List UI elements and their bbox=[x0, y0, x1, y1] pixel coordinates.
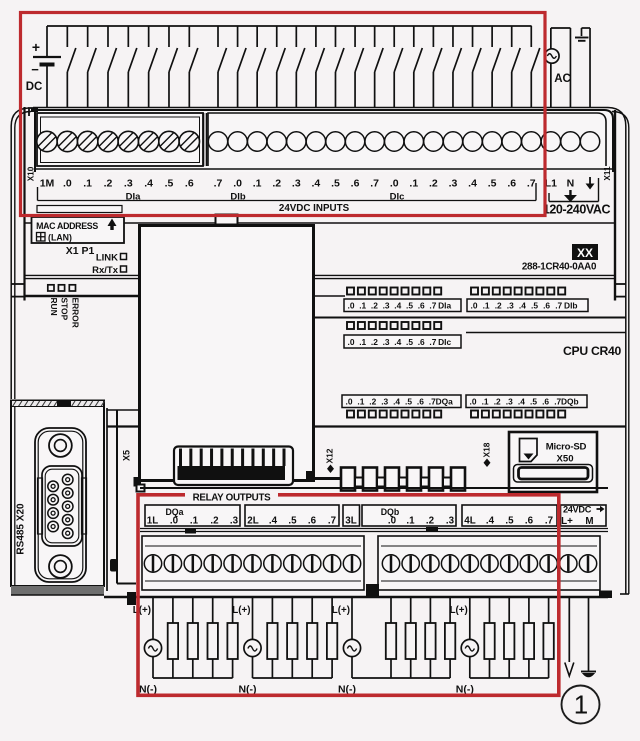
svg-text:.2: .2 bbox=[210, 516, 219, 527]
svg-text:24VDC: 24VDC bbox=[563, 505, 592, 515]
svg-text:288-1CR40-0AA0: 288-1CR40-0AA0 bbox=[522, 262, 597, 273]
svg-text:.4: .4 bbox=[486, 516, 495, 527]
svg-text:.2: .2 bbox=[426, 516, 435, 527]
svg-text:.6: .6 bbox=[308, 516, 317, 527]
svg-text:.5: .5 bbox=[406, 301, 413, 311]
svg-text:.5: .5 bbox=[165, 178, 174, 190]
svg-text:L+: L+ bbox=[561, 516, 573, 527]
svg-text:.3: .3 bbox=[383, 337, 390, 347]
svg-text:.4: .4 bbox=[144, 178, 153, 190]
svg-text:DIc: DIc bbox=[438, 337, 451, 347]
svg-text:.0: .0 bbox=[470, 397, 477, 407]
svg-text:DQa: DQa bbox=[165, 507, 183, 517]
svg-text:.6: .6 bbox=[351, 178, 360, 190]
svg-text:.5: .5 bbox=[406, 337, 413, 347]
svg-text:.2: .2 bbox=[371, 337, 378, 347]
svg-text:.4: .4 bbox=[394, 301, 401, 311]
svg-text:X5: X5 bbox=[122, 450, 132, 461]
svg-text:X1 P1: X1 P1 bbox=[66, 245, 95, 257]
svg-text:+: + bbox=[32, 39, 40, 55]
svg-text:L(+): L(+) bbox=[133, 605, 151, 616]
svg-text:.7: .7 bbox=[429, 337, 436, 347]
svg-text:.7: .7 bbox=[370, 178, 379, 190]
svg-text:L(+): L(+) bbox=[450, 605, 468, 616]
svg-text:.0: .0 bbox=[348, 337, 355, 347]
svg-text:.1: .1 bbox=[190, 516, 199, 527]
svg-text:.6: .6 bbox=[542, 397, 549, 407]
svg-text:.6: .6 bbox=[185, 178, 194, 190]
svg-text:.0: .0 bbox=[63, 178, 72, 190]
svg-text:.0: .0 bbox=[471, 301, 478, 311]
svg-text:XX: XX bbox=[577, 246, 593, 260]
svg-text:.0: .0 bbox=[233, 178, 242, 190]
svg-text:.5: .5 bbox=[488, 178, 497, 190]
svg-text:ERROR: ERROR bbox=[70, 298, 80, 328]
svg-text:.6: .6 bbox=[418, 301, 425, 311]
svg-text:.1: .1 bbox=[357, 397, 364, 407]
svg-text:.1: .1 bbox=[359, 301, 366, 311]
svg-text:DIb: DIb bbox=[564, 301, 578, 311]
svg-text:L(+): L(+) bbox=[232, 605, 250, 616]
svg-text:X12: X12 bbox=[325, 448, 335, 463]
svg-text:RELAY OUTPUTS: RELAY OUTPUTS bbox=[193, 493, 272, 504]
svg-text:.6: .6 bbox=[507, 178, 516, 190]
svg-text:.0: .0 bbox=[388, 516, 397, 527]
svg-text:DQb: DQb bbox=[381, 507, 400, 517]
svg-text:.3: .3 bbox=[292, 178, 301, 190]
svg-text:.1: .1 bbox=[483, 301, 490, 311]
svg-text:.2: .2 bbox=[494, 397, 501, 407]
svg-text:.7: .7 bbox=[555, 301, 562, 311]
svg-text:120-240VAC: 120-240VAC bbox=[543, 203, 611, 217]
svg-text:.1: .1 bbox=[359, 337, 366, 347]
svg-text:DQb: DQb bbox=[561, 397, 579, 407]
svg-text:.3: .3 bbox=[507, 301, 514, 311]
svg-text:RS485 X20: RS485 X20 bbox=[16, 503, 27, 555]
svg-text:.0: .0 bbox=[346, 397, 353, 407]
svg-text:.1: .1 bbox=[406, 516, 415, 527]
svg-text:.4: .4 bbox=[519, 301, 526, 311]
svg-text:.1: .1 bbox=[482, 397, 489, 407]
svg-text:1L: 1L bbox=[147, 516, 158, 527]
svg-text:.4: .4 bbox=[269, 516, 278, 527]
svg-text:1: 1 bbox=[574, 690, 588, 720]
svg-text:.1: .1 bbox=[253, 178, 262, 190]
svg-text:LINK: LINK bbox=[96, 253, 118, 264]
svg-text:.2: .2 bbox=[429, 178, 438, 190]
svg-text:.7: .7 bbox=[214, 178, 223, 190]
svg-text:.7: .7 bbox=[328, 516, 337, 527]
svg-text:.2: .2 bbox=[371, 301, 378, 311]
svg-text:.3: .3 bbox=[383, 301, 390, 311]
svg-text:2L: 2L bbox=[247, 516, 258, 527]
svg-text:.4: .4 bbox=[393, 397, 400, 407]
svg-text:.4: .4 bbox=[394, 337, 401, 347]
svg-text:.5: .5 bbox=[530, 397, 537, 407]
svg-text:X11: X11 bbox=[603, 166, 612, 181]
svg-text:N: N bbox=[567, 178, 575, 190]
svg-text:.3: .3 bbox=[381, 397, 388, 407]
svg-text:.6: .6 bbox=[417, 397, 424, 407]
svg-text:X18: X18 bbox=[482, 442, 492, 457]
svg-text:.5: .5 bbox=[331, 178, 340, 190]
svg-text:MAC ADDRESS: MAC ADDRESS bbox=[36, 221, 98, 231]
svg-text:M: M bbox=[585, 516, 593, 527]
svg-text:.6: .6 bbox=[543, 301, 550, 311]
svg-text:.6: .6 bbox=[418, 337, 425, 347]
svg-text:DC: DC bbox=[26, 81, 43, 93]
svg-text:.3: .3 bbox=[506, 397, 513, 407]
svg-text:.7: .7 bbox=[527, 178, 536, 190]
svg-text:.1: .1 bbox=[409, 178, 418, 190]
svg-text:.3: .3 bbox=[230, 516, 239, 527]
svg-text:24VDC INPUTS: 24VDC INPUTS bbox=[279, 203, 350, 214]
svg-text:.0: .0 bbox=[170, 516, 179, 527]
svg-text:Rx/Tx: Rx/Tx bbox=[92, 265, 119, 276]
svg-text:.1: .1 bbox=[83, 178, 92, 190]
svg-text:.4: .4 bbox=[312, 178, 321, 190]
svg-text:X10: X10 bbox=[27, 166, 36, 181]
svg-text:.7: .7 bbox=[545, 516, 554, 527]
svg-text:.5: .5 bbox=[531, 301, 538, 311]
svg-text:CPU CR40: CPU CR40 bbox=[563, 344, 621, 358]
svg-text:.0: .0 bbox=[348, 301, 355, 311]
svg-text:Micro-SD: Micro-SD bbox=[546, 442, 587, 453]
svg-text:.7: .7 bbox=[429, 301, 436, 311]
svg-text:.4: .4 bbox=[518, 397, 525, 407]
svg-text:.2: .2 bbox=[369, 397, 376, 407]
svg-text:.3: .3 bbox=[124, 178, 133, 190]
svg-text:−: − bbox=[31, 62, 39, 77]
svg-text:.6: .6 bbox=[525, 516, 534, 527]
svg-text:1M: 1M bbox=[40, 178, 55, 190]
svg-text:DQa: DQa bbox=[436, 397, 454, 407]
svg-text:X50: X50 bbox=[556, 454, 573, 465]
svg-text:L(+): L(+) bbox=[332, 605, 350, 616]
svg-text:.5: .5 bbox=[288, 516, 297, 527]
svg-text:.2: .2 bbox=[104, 178, 113, 190]
svg-text:.0: .0 bbox=[390, 178, 399, 190]
svg-text:(LAN): (LAN) bbox=[48, 233, 72, 243]
svg-text:3L: 3L bbox=[345, 516, 356, 527]
svg-text:AC: AC bbox=[554, 73, 571, 85]
svg-text:DIa: DIa bbox=[438, 301, 451, 311]
svg-text:.3: .3 bbox=[446, 516, 455, 527]
svg-text:.4: .4 bbox=[468, 178, 477, 190]
svg-text:.5: .5 bbox=[405, 397, 412, 407]
svg-text:.3: .3 bbox=[449, 178, 458, 190]
svg-text:.2: .2 bbox=[272, 178, 281, 190]
svg-text:RUN: RUN bbox=[49, 298, 59, 316]
svg-text:4L: 4L bbox=[464, 516, 475, 527]
svg-text:.2: .2 bbox=[495, 301, 502, 311]
svg-text:.5: .5 bbox=[505, 516, 514, 527]
svg-text:STOP: STOP bbox=[60, 298, 70, 321]
